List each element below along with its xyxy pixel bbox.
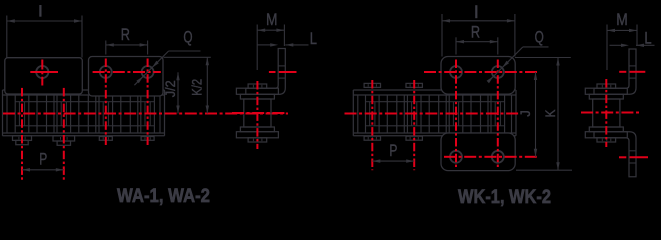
svg-text:M: M (616, 10, 628, 29)
svg-text:Q: Q (183, 27, 192, 46)
caption WA-1, WA-2 (117, 186, 210, 207)
svg-text:WA-1, WA-2: WA-1, WA-2 (117, 186, 210, 207)
svg-text:R: R (471, 22, 480, 41)
pin centerline 2 (63, 88, 65, 180)
dimension l (WK plate length) (442, 5, 515, 56)
dimension R (WK hole spacing) (456, 22, 498, 54)
dimension K (WK) (515, 58, 572, 171)
dimension P (WK chain pitch) (372, 141, 414, 163)
chain end view (WA) (236, 84, 278, 142)
svg-text:WK-1, WK-2: WK-1, WK-2 (458, 187, 551, 208)
svg-text:K/2: K/2 (190, 79, 206, 96)
dimension Q (WK hole diameter leader) (487, 28, 549, 84)
chain centerline (WA) (3, 113, 288, 115)
svg-text:K: K (543, 109, 559, 117)
pin centerline 8 (497, 60, 499, 168)
pin centerline 1 (21, 88, 23, 180)
WA-1 hole crosshair (30, 60, 58, 86)
dimension M (WK) (607, 10, 637, 70)
svg-text:P: P (389, 141, 397, 160)
end view horizontal centerline (WK) (581, 112, 639, 114)
dimension J/2 (163, 72, 180, 113)
pin centerline 5 (371, 80, 373, 170)
dimension J (WK) (518, 72, 537, 157)
bent lug (WA end view) (246, 49, 285, 95)
lug hole centerline bottom (WK end view) (619, 156, 648, 158)
WK bottom holes centerline (444, 156, 537, 158)
svg-text:L: L (310, 29, 317, 48)
attachment plate WK top (441, 57, 515, 95)
end view vertical centerline (WK) (605, 79, 607, 147)
svg-text:J/2: J/2 (163, 80, 179, 97)
end view vertical centerline (WA) (256, 81, 258, 149)
svg-text:J: J (518, 110, 534, 117)
svg-text:M: M (266, 10, 278, 29)
attachment plate WK bottom (441, 133, 515, 171)
svg-text:Q: Q (535, 28, 544, 47)
caption WK-1, WK-2 (458, 187, 551, 208)
dimension R (hole spacing) (106, 25, 148, 55)
holes in WA-2 plate (100, 66, 154, 78)
pin centerline 3 (105, 59, 107, 146)
attachment plate WA-2 (89, 57, 164, 97)
hole in WA-1 plate (36, 66, 48, 78)
pin centerline 6 (413, 80, 415, 170)
dimension l (WA-1 plate length) (7, 5, 82, 58)
chain end view (WK) (585, 84, 627, 142)
svg-text:L: L (644, 28, 651, 47)
pin centerline 4 (147, 59, 149, 146)
dimension K/2 (164, 57, 211, 113)
chain centerline (WK) (345, 113, 519, 115)
WK top holes centerline (424, 71, 537, 73)
holes in WK top plate (450, 66, 504, 78)
holes in WK bottom plate (450, 151, 504, 163)
attachment plate WA-1 (5, 58, 83, 94)
svg-text:P: P (39, 149, 47, 168)
WA-2 holes centerline (93, 71, 161, 73)
svg-text:R: R (121, 25, 130, 44)
lug hole centerline (WA end view) (269, 71, 297, 73)
chain plan view (WA drawing) (3, 90, 165, 145)
bent lug down (WK end view) (594, 132, 636, 177)
chain plan view (WK drawing) (353, 83, 516, 140)
dimension L (WA) (257, 29, 317, 48)
dimension M (WA) (257, 10, 284, 70)
dimension P (chain pitch) (22, 149, 64, 171)
dimension Q (hole diameter leader) (134, 27, 200, 85)
bent lug up (WK end view) (594, 49, 636, 94)
pin centerline 7 (455, 60, 457, 168)
lug hole centerline top (WK end view) (619, 71, 645, 73)
dimension L (WK) (610, 28, 655, 47)
end view horizontal centerline (WA) (232, 112, 284, 114)
